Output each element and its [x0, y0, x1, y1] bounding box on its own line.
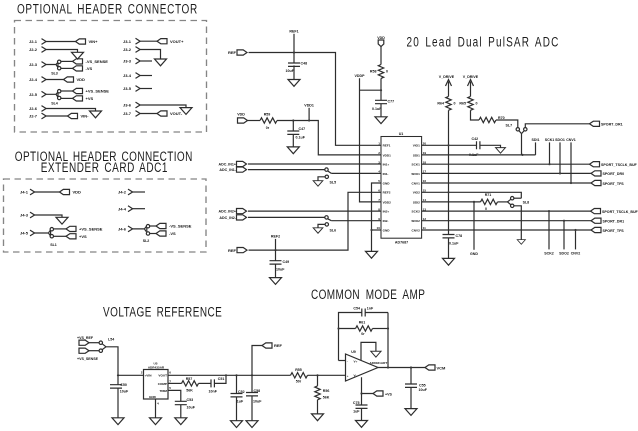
ground	[72, 52, 84, 59]
svg-text:-: -	[347, 359, 348, 363]
wire	[521, 134, 523, 155]
svg-text:VIN-: VIN-	[81, 114, 90, 119]
wire	[308, 374, 346, 376]
svg-text:VDD2: VDD2	[383, 200, 392, 204]
resistor R58	[370, 65, 388, 79]
resistor R64	[437, 96, 455, 110]
wire	[140, 88, 152, 90]
svg-text:0r: 0r	[361, 332, 365, 336]
power symbol VDD	[377, 36, 385, 65]
svg-text:+VS: +VS	[79, 234, 87, 239]
svg-text:VDDP: VDDP	[355, 74, 366, 78]
svg-text:1uF: 1uF	[237, 400, 244, 404]
svg-text:REF: REF	[274, 343, 283, 348]
net tag REF (output)	[262, 343, 283, 348]
svg-text:IN1+: IN1+	[383, 163, 390, 167]
svg-text:IN1-: IN1-	[383, 172, 389, 176]
wire	[318, 224, 325, 227]
wire	[133, 191, 145, 193]
svg-text:10uF: 10uF	[120, 389, 129, 393]
resistor R65	[459, 96, 477, 110]
svg-text:+VS_SENSE: +VS_SENSE	[86, 89, 110, 94]
pin 9 IN2-	[378, 217, 388, 223]
svg-text:GND: GND	[470, 252, 478, 256]
wire	[106, 347, 118, 376]
net tag +VS_REF	[77, 336, 94, 345]
svg-text:8: 8	[378, 207, 380, 211]
node SCK2 label stub	[544, 211, 554, 255]
connector pin J2-7	[29, 113, 46, 119]
capacitor C52	[231, 375, 245, 420]
pin 20 VIO1	[413, 142, 427, 148]
resistor R70	[479, 116, 505, 123]
svg-text:VIN+: VIN+	[89, 39, 99, 44]
junction	[360, 392, 362, 394]
wire	[318, 177, 325, 181]
dashed border box extender card	[4, 179, 207, 252]
net tag -VS_SENSE	[156, 223, 192, 228]
section title: VOLTAGE REFERENCE	[103, 304, 222, 320]
connector pin J3-7	[123, 111, 140, 117]
net tag REF (mid-left)	[228, 248, 247, 253]
svg-text:C53: C53	[187, 398, 194, 402]
svg-text:SDI1: SDI1	[413, 153, 420, 157]
net tag VCM	[425, 365, 446, 370]
wire	[360, 78, 382, 100]
svg-text:6: 6	[378, 189, 380, 193]
svg-text:J4-1: J4-1	[20, 190, 29, 195]
wire	[140, 75, 152, 77]
svg-text:-VS: -VS	[169, 231, 176, 236]
wire	[54, 229, 67, 236]
net tag +VS_SENSE	[73, 88, 110, 93]
svg-text:10uF: 10uF	[419, 388, 428, 392]
svg-text:R55: R55	[295, 368, 302, 372]
capacitor C49	[270, 250, 290, 278]
svg-text:GND: GND	[149, 395, 157, 399]
solder jumper SL5	[325, 168, 336, 184]
wire	[248, 163, 381, 165]
wire op-amp supply pin	[362, 377, 374, 393]
pin 5 GND	[378, 179, 390, 185]
wire	[248, 120, 261, 122]
svg-text:J3-5: J3-5	[123, 86, 132, 91]
wire op-amp top pin to ground	[361, 342, 376, 360]
svg-text:SL3: SL3	[51, 72, 58, 76]
resistor R57	[182, 377, 199, 392]
op-amp U9 AD8031	[346, 350, 388, 381]
net tag VIN+	[76, 39, 99, 44]
svg-text:R61: R61	[359, 321, 366, 325]
svg-text:R57: R57	[186, 377, 193, 381]
wire TRIM	[168, 390, 181, 401]
svg-text:+VS_SENSE: +VS_SENSE	[79, 227, 103, 232]
wire VDDP to pin7	[360, 78, 382, 202]
connector pin J4-5	[20, 230, 35, 236]
ground	[288, 80, 300, 87]
svg-text:VIO2: VIO2	[413, 191, 420, 195]
capacitor C51	[209, 377, 225, 393]
resistor R56	[315, 375, 330, 414]
junction	[521, 154, 523, 156]
svg-text:GND: GND	[383, 181, 391, 185]
svg-text:R56: R56	[323, 389, 330, 393]
ground	[405, 409, 417, 416]
svg-text:J4-4: J4-4	[118, 206, 127, 211]
svg-text:COMMON MODE AMP: COMMON MODE AMP	[311, 287, 425, 303]
svg-text:J2-4: J2-4	[29, 77, 38, 82]
svg-text:VDD: VDD	[377, 36, 385, 40]
svg-text:SPORT_TFS: SPORT_TFS	[603, 182, 625, 186]
wire	[46, 50, 77, 53]
net tag VDD (left)	[237, 113, 247, 124]
pin 1 REF1	[378, 142, 391, 148]
wire	[248, 169, 325, 171]
junction	[574, 229, 576, 231]
junction	[117, 374, 119, 376]
svg-text:C50: C50	[120, 383, 127, 387]
pin 6 REF2	[378, 189, 391, 195]
svg-text:J3-4: J3-4	[123, 73, 132, 78]
wire	[525, 124, 589, 128]
wire	[199, 382, 212, 384]
svg-text:R71: R71	[485, 193, 492, 197]
svg-text:2: 2	[378, 151, 380, 155]
wire output	[378, 367, 426, 369]
wire feedback loop	[339, 313, 389, 368]
connector pin J2-3	[29, 62, 46, 68]
svg-text:CNV2: CNV2	[571, 251, 581, 255]
svg-text:SDO1: SDO1	[411, 172, 420, 176]
net tag +VS	[66, 234, 87, 239]
node CNV2 label stub	[571, 230, 581, 255]
connector pin J3-1	[123, 38, 140, 44]
net tag SPORT_TSCLK_BUF	[590, 162, 638, 167]
junction	[251, 374, 253, 376]
power flag V_DRIVE (right)	[463, 75, 479, 92]
svg-text:SDI1: SDI1	[532, 138, 540, 142]
connector pin J2-4	[29, 77, 46, 83]
net tag VOUT+	[157, 39, 184, 44]
svg-text:J3-6: J3-6	[123, 103, 132, 108]
svg-text:SDI2: SDI2	[413, 200, 420, 204]
net tag SPORT_DR1	[591, 218, 624, 223]
svg-text:VIO1: VIO1	[413, 144, 420, 148]
svg-text:56K: 56K	[323, 395, 330, 399]
svg-text:SDO2: SDO2	[559, 251, 569, 255]
svg-text:SL1: SL1	[50, 243, 57, 247]
svg-text:REF: REF	[228, 50, 237, 55]
svg-text:SPORT_TSCLK_BUF: SPORT_TSCLK_BUF	[601, 163, 638, 167]
connector pin J3-2	[123, 47, 140, 53]
junction	[308, 119, 310, 121]
wire	[35, 191, 60, 193]
wire	[471, 110, 480, 120]
svg-text:C55: C55	[419, 383, 426, 387]
svg-text:SPORT_DR1: SPORT_DR1	[601, 123, 623, 127]
svg-text:VOUT+: VOUT+	[170, 39, 184, 44]
svg-text:SL8: SL8	[523, 201, 530, 205]
ground	[56, 217, 68, 224]
solder jumper SL1	[50, 228, 57, 248]
svg-text:J4-6: J4-6	[118, 227, 127, 232]
connector pin J4-6	[118, 226, 133, 232]
connector pin J2-6	[29, 106, 46, 112]
pin 16 CNV1	[412, 179, 427, 185]
svg-text:CNV1: CNV1	[412, 181, 421, 185]
solder jumper SL7	[506, 123, 528, 133]
svg-text:VDD: VDD	[73, 190, 82, 195]
wire	[89, 343, 99, 351]
capacitor C54	[353, 307, 374, 317]
svg-text:SDO1: SDO1	[555, 138, 565, 142]
wire VIO2	[422, 192, 522, 198]
section title: COMMON MODE AMP	[311, 287, 425, 303]
svg-text:V-: V-	[354, 374, 357, 378]
connector pin J4-4	[118, 206, 133, 212]
wire	[61, 91, 73, 98]
svg-text:SPORT_DR1: SPORT_DR1	[603, 220, 625, 224]
section title: 20 Lead Dual PulSAR ADC	[407, 34, 560, 50]
power flag V_DRIVE (left)	[439, 75, 455, 92]
wire	[46, 115, 67, 117]
wire	[118, 374, 144, 376]
solder jumper SL3	[51, 60, 61, 75]
svg-text:J4-2: J4-2	[118, 190, 127, 195]
svg-text:-VS: -VS	[86, 66, 93, 71]
ground	[366, 251, 378, 258]
node REF1 label stub	[289, 30, 298, 53]
svg-text:C77: C77	[388, 100, 395, 104]
svg-text:0.1uF: 0.1uF	[449, 241, 459, 245]
svg-text:0: 0	[454, 101, 456, 105]
svg-text:6: 6	[169, 371, 171, 375]
svg-text:J2-2: J2-2	[29, 47, 38, 52]
svg-text:20 Lead Dual PulSAR ADC: 20 Lead Dual PulSAR ADC	[407, 34, 560, 50]
pin 17 SDO1	[411, 170, 426, 176]
wire SCK1	[422, 163, 590, 165]
wire	[140, 113, 157, 115]
svg-text:SL7: SL7	[506, 123, 513, 127]
svg-text:COMP: COMP	[158, 382, 167, 386]
capacitor C48	[286, 53, 308, 80]
wire	[496, 120, 518, 128]
svg-text:GND: GND	[383, 228, 391, 232]
junction	[563, 220, 565, 222]
svg-text:V_DRIVE: V_DRIVE	[439, 75, 455, 79]
junction	[387, 327, 389, 329]
svg-text:R65: R65	[459, 101, 466, 105]
svg-text:1: 1	[378, 142, 380, 146]
wire	[248, 216, 325, 218]
node VDD1 label stub	[304, 104, 314, 121]
svg-text:REF1: REF1	[383, 144, 391, 148]
connector pin J2-1	[29, 39, 46, 45]
svg-text:0: 0	[386, 70, 388, 74]
net tag -VS	[156, 231, 176, 236]
svg-text:J3-1: J3-1	[123, 39, 132, 44]
ground	[375, 117, 387, 124]
svg-text:1uF: 1uF	[353, 410, 360, 414]
ground	[356, 421, 368, 428]
resistor R55	[291, 368, 308, 383]
connector pin J3-6	[123, 102, 140, 108]
net tag SPORT_DR1	[590, 121, 623, 126]
solder jumper L54	[99, 338, 114, 353]
node CNV1 label stub	[566, 138, 576, 183]
wire REF branch	[252, 346, 262, 376]
svg-text:9: 9	[378, 217, 380, 221]
net tag VIN-	[68, 113, 90, 118]
svg-text:REF2: REF2	[271, 235, 280, 239]
svg-text:+VS: +VS	[385, 392, 392, 396]
wire REF to pin1	[249, 53, 382, 146]
junction	[274, 249, 276, 251]
wire	[277, 121, 381, 155]
wire	[514, 206, 521, 240]
svg-text:L54: L54	[108, 338, 114, 342]
wire	[133, 208, 145, 210]
resistor R71	[481, 193, 498, 211]
pin 3 IN1+	[378, 160, 389, 166]
net tag REF (top)	[228, 50, 247, 55]
junction	[316, 374, 318, 376]
svg-text:4: 4	[378, 170, 380, 174]
net tag ADC_IN1+	[219, 161, 247, 166]
svg-text:REF1: REF1	[289, 30, 298, 34]
wire	[480, 145, 501, 147]
svg-text:C78: C78	[456, 234, 463, 238]
junction	[570, 182, 572, 184]
svg-text:R59: R59	[264, 113, 271, 117]
svg-text:+VS_REF: +VS_REF	[77, 336, 94, 340]
svg-text:SL5: SL5	[330, 180, 337, 184]
svg-text:SCK1: SCK1	[412, 163, 421, 167]
connector pin J3-5	[123, 86, 140, 92]
wire	[448, 93, 450, 97]
net tag SPORT_TSCLK_BUF	[591, 209, 638, 214]
wire	[35, 215, 62, 217]
pin 12 SDO2	[411, 217, 426, 223]
wire VOUT rail	[168, 374, 291, 376]
svg-text:ADC_IN2+: ADC_IN2+	[219, 210, 236, 214]
net tag +VS	[373, 391, 392, 396]
capacitor C42	[469, 137, 480, 157]
ground	[287, 147, 299, 154]
capacitor C77	[372, 100, 394, 117]
junction	[548, 210, 550, 212]
junction	[447, 144, 449, 146]
node REF2 label stub	[271, 235, 280, 250]
net tag +VS	[73, 96, 94, 101]
net tag SPORT_TFS	[591, 227, 624, 232]
junction	[447, 191, 449, 193]
net tag -VS_SENSE	[73, 59, 109, 64]
svg-text:10nF: 10nF	[209, 389, 218, 393]
pin 11 CNV2	[412, 226, 427, 232]
svg-text:SCK2: SCK2	[544, 251, 554, 255]
node SDO1 label stub	[555, 138, 565, 173]
svg-text:J4-3: J4-3	[20, 213, 29, 218]
svg-text:J3-3: J3-3	[123, 59, 132, 64]
net tag +VS_SENSE	[66, 226, 103, 231]
net tag ADC_IN2-	[219, 215, 246, 220]
svg-text:VDD1: VDD1	[304, 104, 314, 108]
pin 2 VDD1	[378, 151, 391, 157]
solder jumper SL8	[498, 197, 530, 208]
pin 7 VDD2	[378, 198, 391, 204]
wire	[331, 172, 381, 174]
svg-text:5: 5	[169, 386, 171, 390]
svg-text:VOLTAGE REFERENCE: VOLTAGE REFERENCE	[103, 304, 222, 320]
capacitor C75	[353, 394, 368, 421]
svg-text:0: 0	[476, 101, 478, 105]
svg-text:0: 0	[485, 207, 487, 211]
op-amp/IC U1 body AD7687	[381, 132, 422, 244]
svg-text:VCM: VCM	[437, 365, 447, 370]
wire	[46, 63, 58, 67]
connector pin J4-2	[118, 189, 133, 195]
ground	[180, 108, 192, 115]
svg-text:OPTIONAL HEADER CONNECTOR: OPTIONAL HEADER CONNECTOR	[17, 1, 198, 17]
wire	[331, 220, 381, 222]
svg-text:J2-1: J2-1	[29, 39, 38, 44]
svg-text:+VIN: +VIN	[145, 373, 153, 377]
junction	[380, 89, 382, 91]
junction	[235, 374, 237, 376]
pin 15 VIO2	[413, 189, 427, 195]
ground	[150, 418, 162, 425]
wire	[133, 227, 146, 232]
svg-text:VOUT-: VOUT-	[170, 111, 183, 116]
solder jumper SL2	[143, 225, 150, 244]
svg-text:CNV2: CNV2	[412, 228, 421, 232]
ground	[175, 418, 187, 425]
resistor R59	[260, 113, 277, 131]
net tag SPORT_TFS	[591, 180, 624, 185]
node SDO2 label stub	[559, 221, 569, 256]
svg-text:ADR435AR: ADR435AR	[148, 366, 165, 370]
svg-text:10uF: 10uF	[286, 69, 295, 73]
svg-text:56K: 56K	[186, 388, 193, 392]
node VDDP label	[355, 74, 366, 78]
svg-text:EXTENDER CARD ADC1: EXTENDER CARD ADC1	[41, 159, 168, 175]
net tag ADC_IN2+	[219, 209, 247, 214]
junction	[225, 374, 227, 376]
svg-text:C52: C52	[238, 390, 245, 394]
svg-text:C58: C58	[254, 389, 261, 393]
junction	[410, 366, 412, 368]
capacitor C55	[405, 368, 428, 409]
wire SDI1	[422, 154, 536, 156]
net tag -VS	[73, 66, 93, 71]
wire VIO1	[422, 144, 477, 146]
svg-text:SL4: SL4	[51, 102, 58, 106]
capacitor C78	[443, 234, 463, 259]
svg-text:C49: C49	[283, 260, 290, 264]
svg-text:J2-3: J2-3	[29, 62, 38, 67]
wire	[46, 41, 75, 43]
svg-text:VDD: VDD	[237, 113, 245, 117]
node SDI1 label stub	[532, 138, 540, 155]
node SDI2 label stub	[470, 202, 478, 256]
wire inverting input	[339, 360, 346, 362]
connector pin J2-2	[29, 47, 46, 53]
capacitor C47	[287, 121, 305, 147]
ground	[517, 240, 525, 245]
svg-text:+: +	[347, 374, 349, 378]
capacitor C50	[110, 375, 129, 418]
